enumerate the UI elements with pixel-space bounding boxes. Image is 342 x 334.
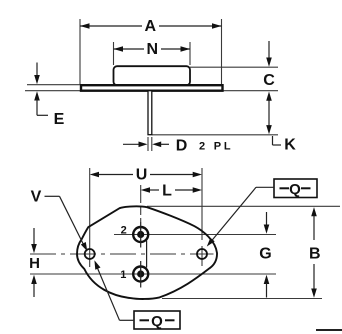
svg-text:C: C <box>263 72 275 89</box>
svg-text:B: B <box>309 246 321 263</box>
svg-text:2 PL: 2 PL <box>199 141 233 153</box>
svg-text:D: D <box>176 137 188 154</box>
svg-text:K: K <box>284 137 296 154</box>
svg-text:L: L <box>162 182 172 199</box>
svg-text:Q: Q <box>289 181 301 198</box>
svg-text:V: V <box>31 189 42 206</box>
svg-text:U: U <box>136 167 148 184</box>
svg-text:N: N <box>147 41 159 58</box>
svg-text:G: G <box>259 246 271 263</box>
svg-text:A: A <box>145 18 157 35</box>
svg-text:1: 1 <box>120 269 126 281</box>
svg-text:H: H <box>29 255 40 272</box>
svg-text:E: E <box>54 111 65 128</box>
svg-text:2: 2 <box>121 224 127 236</box>
svg-text:Q: Q <box>151 313 163 330</box>
